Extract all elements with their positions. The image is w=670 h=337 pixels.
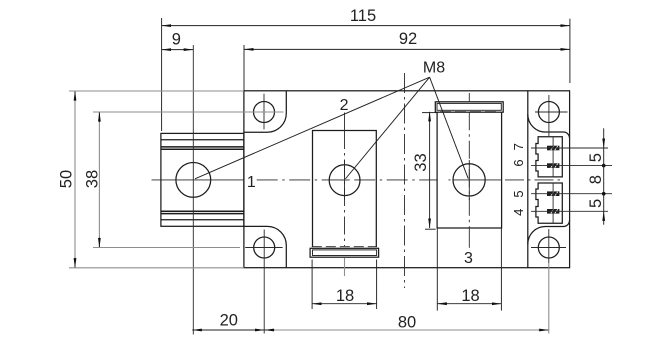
svg-text:7: 7	[511, 143, 526, 150]
dimension 50	[58, 91, 245, 268]
gate connector lower housing	[536, 183, 562, 223]
svg-text:M8: M8	[423, 60, 445, 77]
dimension 38	[84, 112, 284, 248]
terminal 1 horizontal centerline	[152, 179, 244, 181]
svg-text:8: 8	[587, 175, 605, 184]
svg-text:5: 5	[587, 153, 605, 162]
terminal label 2	[340, 97, 349, 114]
corner contour bottom-right	[528, 221, 570, 245]
M8 leader to terminal 3	[430, 77, 469, 178]
terminal 2 circle	[329, 165, 360, 196]
svg-text:92: 92	[399, 30, 417, 48]
terminal label 3	[464, 250, 473, 267]
dimension 33	[412, 112, 437, 229]
terminal 2 clamp strip	[310, 248, 379, 257]
terminal 2 vertical centerline	[344, 113, 346, 277]
svg-text:115: 115	[350, 7, 376, 25]
node label 1	[247, 174, 256, 191]
svg-text:5: 5	[511, 190, 526, 197]
dimension 20	[192, 312, 264, 330]
svg-text:5: 5	[587, 199, 605, 208]
M8 leader to terminal 1	[195, 77, 430, 179]
svg-text:6: 6	[511, 159, 526, 166]
corner contour top-right	[528, 114, 570, 138]
dimension 8 (pins 6-5)	[587, 148, 605, 211]
gate pin labels 7 6 5 4	[511, 143, 526, 216]
terminal 3 clamp strip	[435, 102, 503, 112]
gate pin column centerline lower	[552, 183, 554, 223]
module body outline	[244, 91, 570, 268]
vertical middle centerline	[404, 73, 406, 288]
M8 leader to terminal 2	[345, 77, 429, 179]
dimension 5 lower (pins 5-4)	[587, 199, 605, 225]
terminal 1 block (left tab)	[161, 133, 244, 226]
dimension 18 terminal 3	[437, 228, 501, 311]
mounting hole bottom-right	[531, 229, 566, 263]
dimension 115	[162, 7, 570, 131]
svg-text:18: 18	[461, 287, 479, 305]
gate connector upper housing	[536, 137, 562, 177]
gate pin 7	[531, 146, 608, 151]
terminal 3 circle	[453, 164, 485, 196]
mounting hole bottom-left	[245, 230, 282, 334]
M8 label	[423, 60, 445, 77]
terminal 1 circle	[176, 163, 211, 198]
gate pin 4	[531, 209, 608, 214]
svg-text:1: 1	[247, 174, 256, 191]
dimension 9	[162, 31, 194, 50]
corner contour top-left tab	[244, 91, 286, 132]
mounting hole top-left	[254, 94, 275, 130]
dimension 18 terminal 2	[312, 260, 377, 310]
right inner wall line	[527, 91, 529, 268]
svg-text:80: 80	[398, 313, 416, 331]
dimension 80	[264, 263, 548, 334]
svg-text:2: 2	[340, 97, 349, 114]
dimension 5 upper (pins 7-6)	[587, 128, 605, 167]
svg-text:4: 4	[511, 209, 526, 216]
terminal 1 vertical centerline	[192, 45, 194, 335]
mounting hole top-right	[535, 95, 568, 136]
terminal 3 vertical centerline	[468, 93, 470, 248]
gate pin 5	[531, 191, 612, 196]
terminal 3 block	[437, 112, 502, 228]
svg-text:18: 18	[336, 287, 354, 305]
terminal 2 block	[312, 131, 377, 247]
horizontal master centerline	[257, 179, 562, 181]
svg-text:9: 9	[172, 31, 181, 49]
svg-text:33: 33	[412, 153, 430, 171]
dimension 92	[244, 30, 570, 91]
svg-text:3: 3	[464, 250, 473, 267]
svg-text:50: 50	[58, 170, 76, 188]
svg-text:20: 20	[220, 312, 238, 330]
gate pin column centerline upper	[552, 137, 554, 177]
gate pin 6	[531, 163, 612, 168]
corner contour bottom-left tab	[244, 226, 286, 267]
svg-text:38: 38	[84, 170, 102, 188]
